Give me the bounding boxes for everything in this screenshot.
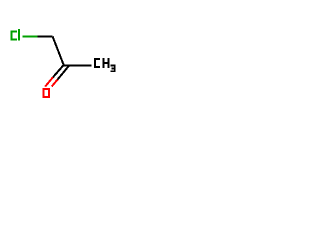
double bond C1=O line A black half — [53, 65, 64, 78]
atom label Cl : letter C — [12, 32, 17, 40]
bond Cl-C2 green half — [23, 36, 38, 38]
atom label CH3 : letter C — [95, 59, 100, 67]
double bond C1=O line B red half — [52, 80, 58, 87]
molecule: chloroacetone Cl-CH2-CO-CH3 — [0, 0, 130, 130]
atom label O — [44, 89, 50, 97]
atom label CH3 : letter H right bar — [108, 58, 110, 68]
background — [0, 0, 130, 130]
bond Cl-C2 black half — [38, 36, 53, 38]
atom label CH3 : letter H left bar — [102, 58, 104, 68]
atom label CH3 : letter H crossbar — [103, 62, 109, 64]
double bond C1=O line A red half — [45, 77, 53, 86]
atom label Cl : letter l — [18, 29, 20, 41]
bond C1-CH3 — [63, 64, 92, 66]
bond C2-C1 — [53, 37, 64, 66]
double bond C1=O line B black half — [58, 65, 70, 79]
atom label CH3 : subscript 3 — [111, 65, 115, 73]
